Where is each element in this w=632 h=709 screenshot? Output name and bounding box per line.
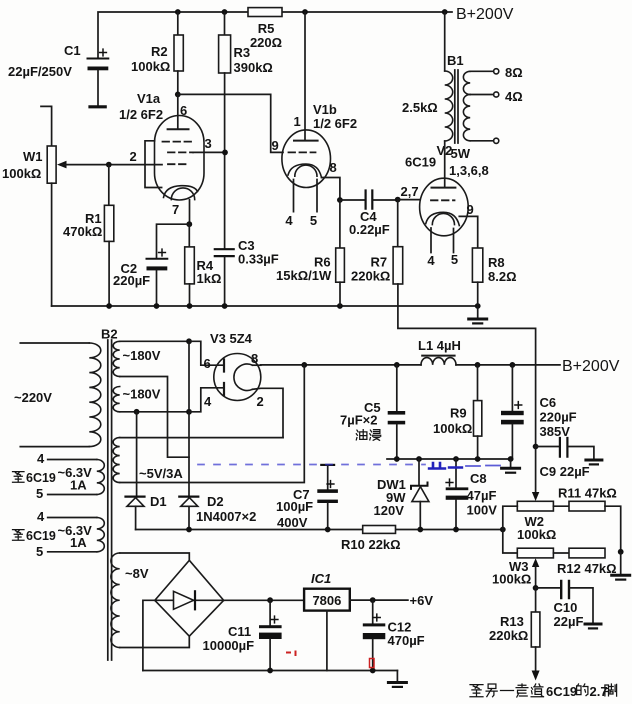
svg-text:D1: D1 — [150, 494, 167, 509]
svg-text:R9: R9 — [450, 406, 467, 421]
svg-text:IC1: IC1 — [311, 571, 331, 586]
svg-text:7µF×2: 7µF×2 — [340, 413, 377, 428]
svg-text:~220V: ~220V — [14, 390, 52, 405]
B2 secondary winding ~5V/3A — [113, 438, 120, 483]
V1b cathode wire pin 8 — [322, 178, 340, 201]
svg-text:6C19: 6C19 — [26, 471, 56, 485]
svg-text:2,7: 2,7 — [401, 184, 419, 199]
svg-text:2: 2 — [130, 149, 137, 164]
C1 ground bar — [90, 105, 105, 108]
resistor R2 — [177, 12, 179, 35]
B2 heater winding ~6.3V lower — [97, 518, 105, 552]
potentiometer W2 wiper arrow — [535, 447, 537, 493]
svg-text:5W: 5W — [451, 146, 471, 161]
resistor R7 — [397, 200, 399, 247]
capacitor C7 top tee — [321, 464, 334, 466]
resistor R4 — [188, 224, 190, 247]
potentiometer W1 input stub wire — [41, 106, 52, 146]
wire 8V bottom to bridge — [120, 636, 190, 647]
svg-text:R11 47kΩ: R11 47kΩ — [558, 486, 617, 501]
blue annotation dashed line — [198, 464, 425, 466]
potentiometer W3 — [517, 548, 553, 558]
wire V2 grid — [398, 199, 420, 201]
svg-text:V1b: V1b — [313, 102, 337, 117]
B2 primary terminal wires — [20, 343, 89, 447]
svg-text:R3: R3 — [234, 45, 251, 60]
svg-text:B+200V: B+200V — [456, 6, 514, 23]
capacitor C2 — [147, 258, 168, 260]
capacitor C6 — [511, 365, 513, 411]
ground symbol C10 — [585, 623, 601, 626]
svg-text:C11: C11 — [228, 624, 251, 639]
B2 winding ~8V — [111, 553, 120, 648]
capacitor C3 — [215, 249, 234, 256]
resistor R12 — [553, 552, 569, 554]
resistor R13 — [535, 588, 537, 612]
svg-text:1A: 1A — [70, 535, 87, 550]
svg-text:4Ω: 4Ω — [505, 89, 523, 104]
svg-text:470µF: 470µF — [388, 633, 425, 648]
wire V3 pin 6 from HV node — [189, 341, 223, 365]
ground symbol R12 — [620, 553, 622, 574]
capacitor C1 — [88, 58, 109, 60]
svg-text:100kΩ: 100kΩ — [2, 166, 41, 181]
wire 180V lower bottom terminal — [120, 411, 189, 413]
junction dots on top rail — [175, 9, 181, 15]
wire bridge positive to IC1 — [224, 599, 304, 601]
V2 heater pins 4 5 — [431, 228, 454, 253]
svg-text:6C19: 6C19 — [26, 529, 56, 543]
svg-text:C8: C8 — [470, 471, 487, 486]
power transformer B2 core — [108, 340, 112, 660]
V2 grid dashes — [431, 199, 455, 201]
B2 secondary winding ~180V upper — [113, 341, 120, 376]
svg-text:C9 22µF: C9 22µF — [540, 464, 590, 479]
svg-text:C10: C10 — [554, 600, 578, 615]
V2 cathode wire pin 9 — [459, 216, 477, 248]
svg-text:390kΩ: 390kΩ — [234, 60, 273, 75]
svg-text:C6: C6 — [540, 395, 557, 410]
wire V3 pin 2 to 5V winding — [253, 388, 284, 437]
svg-text:R7: R7 — [371, 255, 388, 270]
wire R11 right to R12 right — [605, 506, 621, 553]
capacitor C4 — [340, 199, 365, 201]
svg-text:C1: C1 — [64, 43, 81, 58]
svg-text:1,3,6,8: 1,3,6,8 — [449, 163, 489, 178]
wire 5V top terminal — [120, 437, 283, 439]
wire ground rail of amp section — [52, 305, 478, 307]
svg-text:R13: R13 — [500, 614, 524, 629]
svg-text:5: 5 — [36, 544, 43, 559]
ground symbol C9 — [586, 459, 602, 462]
capacitor C11 — [269, 600, 271, 625]
svg-text:8: 8 — [251, 351, 258, 366]
svg-text:8: 8 — [330, 160, 337, 175]
svg-text:W1: W1 — [23, 149, 43, 164]
svg-text:15kΩ/1W: 15kΩ/1W — [276, 268, 332, 283]
svg-text:1/2 6F2: 1/2 6F2 — [119, 107, 163, 122]
svg-text:5: 5 — [451, 252, 458, 267]
svg-text:220µF: 220µF — [540, 410, 577, 425]
ground symbol 6V rail — [396, 671, 398, 682]
V3 filament arc — [234, 364, 253, 390]
wire W1 bottom to ground rail — [51, 183, 53, 306]
svg-text:R5: R5 — [258, 21, 275, 36]
svg-text:220kΩ: 220kΩ — [351, 269, 390, 284]
B1 primary winding — [445, 71, 453, 141]
wire IC1 ground pin — [326, 611, 328, 671]
W1 wiper arrow — [57, 161, 67, 169]
wire 5V bottom terminal to cathode node — [120, 365, 305, 483]
wire 180V winding center jog — [120, 377, 189, 458]
svg-text:47µF: 47µF — [467, 488, 497, 503]
resistor R8 — [472, 248, 482, 282]
svg-text:100kΩ: 100kΩ — [492, 572, 531, 587]
resistor R5 — [248, 8, 282, 17]
W3 wiper arrow — [532, 558, 539, 567]
ground symbol amp rail — [477, 306, 479, 318]
red annotation marks — [287, 652, 296, 656]
svg-text:B1: B1 — [447, 53, 464, 68]
potentiometer W1 — [47, 146, 56, 183]
svg-text:R12 47kΩ: R12 47kΩ — [557, 561, 617, 576]
output transformer B1 primary lead — [444, 12, 446, 71]
filter choke L1 — [422, 355, 454, 357]
svg-text:0.22µF: 0.22µF — [349, 222, 390, 237]
wire bias rail — [136, 529, 503, 531]
V2 plate lead — [444, 141, 446, 187]
wire cathode node to C2 — [157, 224, 190, 258]
bridge diode symbol — [174, 591, 194, 609]
svg-text:1A: 1A — [70, 478, 87, 493]
wire feedback branch to C9 junction — [533, 444, 539, 450]
svg-text:6C19: 6C19 — [546, 684, 577, 699]
svg-text:1/2 6F2: 1/2 6F2 — [313, 116, 357, 131]
capacitor C7 — [317, 489, 338, 493]
node V1a plate / coupling junction — [175, 92, 181, 98]
svg-text:B+200V: B+200V — [562, 358, 620, 375]
V1a screen wire pin 3 — [193, 151, 225, 153]
capacitor C8 — [455, 459, 457, 487]
label to other channel 6C19 pins 2,7 — [470, 685, 483, 697]
resistor R6 — [339, 200, 341, 248]
wire V1a plate to V1b grid coupling — [178, 94, 283, 152]
V1a grid side bracket — [145, 141, 162, 188]
resistor R1 — [108, 165, 110, 206]
triode V1b envelope — [282, 130, 331, 188]
V1b plate lead pin 1 — [304, 12, 306, 140]
diode D2 — [179, 496, 198, 498]
B1 secondary taps and terminals — [470, 71, 493, 141]
svg-text:L1 4µH: L1 4µH — [418, 338, 461, 353]
svg-text:220kΩ: 220kΩ — [489, 628, 528, 643]
V3 plate bars — [223, 360, 225, 396]
wire 8V top to bridge — [120, 553, 190, 560]
wire W2 left branch — [503, 506, 518, 553]
wire V3 pin 4 — [189, 388, 223, 412]
wire raw B+ line — [261, 364, 421, 366]
V1a grid dashed rows — [163, 141, 193, 143]
capacitor C12 — [372, 600, 374, 623]
wire top B+ supply rail — [98, 12, 452, 59]
svg-text:V3 5Z4: V3 5Z4 — [210, 331, 253, 346]
svg-text:100µF: 100µF — [276, 499, 313, 514]
B1 core — [455, 70, 458, 143]
svg-text:100kΩ: 100kΩ — [517, 527, 556, 542]
svg-text:0.33µF: 0.33µF — [238, 252, 279, 267]
svg-text:6C19: 6C19 — [405, 155, 436, 170]
triode-pentode V1a envelope — [155, 116, 205, 201]
svg-text:D2: D2 — [207, 494, 224, 509]
svg-text:B2: B2 — [101, 327, 118, 342]
B2 secondary winding ~180V lower — [113, 387, 120, 412]
resistor R3 — [224, 12, 226, 35]
svg-text:6: 6 — [204, 356, 211, 371]
V1a cathode lead pin 7 — [189, 200, 191, 224]
svg-text:100kΩ: 100kΩ — [131, 59, 170, 74]
svg-text:6: 6 — [180, 103, 187, 118]
svg-text:4: 4 — [285, 213, 293, 228]
capacitor C10 — [536, 587, 560, 589]
svg-text:~180V: ~180V — [123, 387, 161, 402]
svg-text:8.2Ω: 8.2Ω — [488, 269, 517, 284]
svg-text:2: 2 — [257, 394, 264, 409]
svg-text:7: 7 — [172, 202, 179, 217]
svg-text:220Ω: 220Ω — [250, 35, 282, 50]
svg-text:R2: R2 — [151, 44, 168, 59]
svg-text:4: 4 — [427, 253, 435, 268]
rectifier V3 envelope — [214, 354, 261, 401]
svg-text:R10 22kΩ: R10 22kΩ — [341, 537, 401, 552]
potentiometer W2 — [517, 501, 553, 511]
bridge rectifier diamond — [155, 560, 224, 636]
svg-text:V1a: V1a — [137, 91, 161, 106]
svg-text:385V: 385V — [540, 424, 571, 439]
svg-text:1: 1 — [294, 114, 301, 129]
svg-text:470kΩ: 470kΩ — [63, 224, 102, 239]
wire B+ line after L1 — [456, 364, 560, 366]
resistor R10 — [363, 526, 396, 534]
capacitor C5 — [396, 365, 398, 411]
wire 6V ground rail — [143, 670, 398, 672]
svg-text:5: 5 — [310, 213, 317, 228]
wire 180V upper top terminal — [120, 340, 189, 342]
resistor R9 — [477, 365, 479, 401]
svg-text:4: 4 — [37, 451, 45, 466]
svg-text:120V: 120V — [374, 503, 405, 518]
svg-text:8Ω: 8Ω — [505, 65, 523, 80]
svg-text:2.5kΩ: 2.5kΩ — [402, 100, 438, 115]
svg-text:~8V: ~8V — [125, 566, 149, 581]
V2 cathode arcs — [426, 212, 460, 225]
label to 6C19 lower — [13, 530, 25, 541]
svg-text:3: 3 — [205, 136, 212, 151]
svg-text:7806: 7806 — [312, 593, 341, 608]
svg-text:1N4007×2: 1N4007×2 — [196, 509, 256, 524]
svg-text:9: 9 — [467, 202, 474, 217]
svg-text:~5V/3A: ~5V/3A — [139, 466, 183, 481]
wire V3 pin 8 cathode to B+ line — [253, 364, 261, 366]
svg-text:5: 5 — [36, 486, 43, 501]
wire filtered node line — [387, 458, 511, 460]
V1a cathode arcs — [164, 186, 198, 198]
wire W1 wiper to V1a grid — [62, 164, 162, 166]
zener diode DW1 — [418, 459, 420, 485]
svg-text:100V: 100V — [467, 503, 498, 518]
svg-text:400V: 400V — [277, 515, 308, 530]
svg-text:1kΩ: 1kΩ — [197, 271, 222, 286]
arrow to other channel — [532, 671, 540, 681]
svg-text:~180V: ~180V — [123, 348, 161, 363]
svg-text:4: 4 — [37, 509, 45, 524]
capacitor C9 — [536, 446, 559, 448]
V1b cathode arcs — [288, 164, 322, 178]
wire bridge negative to ground rail — [143, 600, 155, 670]
B2 heater winding ~6.3V upper — [97, 459, 105, 494]
svg-text:+6V: +6V — [410, 593, 434, 608]
power triode V2 envelope — [420, 178, 469, 236]
svg-text:R8: R8 — [488, 255, 505, 270]
svg-text:220µF: 220µF — [113, 273, 150, 288]
svg-text:22µF/250V: 22µF/250V — [8, 64, 72, 79]
svg-text:22µF: 22µF — [554, 614, 584, 629]
B1 secondary winding — [463, 71, 470, 94]
resistor R11 — [553, 505, 569, 507]
wire IC1 output +6V — [350, 599, 408, 601]
regulator IC1 7806 — [304, 589, 350, 611]
svg-text:10000µF: 10000µF — [203, 638, 255, 653]
svg-text:9: 9 — [272, 138, 279, 153]
B2 primary winding ~220V — [89, 343, 101, 447]
V1b grid dashes — [289, 151, 316, 153]
svg-text:4: 4 — [204, 394, 212, 409]
diode D1 — [136, 412, 138, 497]
V1a plate lead pin 6 — [177, 94, 179, 128]
wire HV node vertical to D2 — [188, 341, 190, 529]
ground symbol node line — [510, 459, 512, 467]
label to 6C19 upper — [13, 472, 25, 483]
V1b heater pins 4 5 — [294, 180, 318, 212]
svg-text:100kΩ: 100kΩ — [433, 421, 472, 436]
junction dots ground rail — [106, 303, 112, 309]
